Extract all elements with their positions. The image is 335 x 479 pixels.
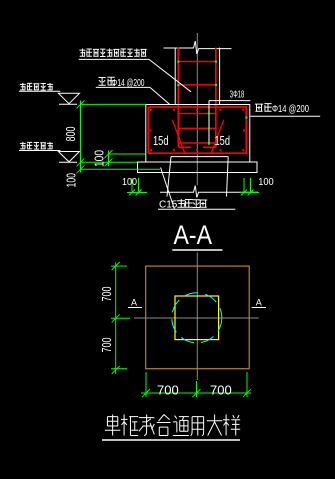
cushion slab (C15) <box>138 162 258 173</box>
note: bottom bars 底筋 <box>255 104 263 111</box>
stirrup end grips (green dots) <box>177 61 179 63</box>
plan vertical centerline <box>196 253 198 381</box>
title underline <box>102 439 240 441</box>
svg-text:700: 700 <box>210 383 232 398</box>
ground break line at pile bottom (with zigzag) <box>160 186 258 198</box>
rebar cage of cap (red) <box>148 107 246 153</box>
rebar section dots side columns <box>150 130 246 132</box>
C15 leader 1 <box>161 168 175 210</box>
pile cap outline (plan, orange) <box>146 266 250 369</box>
small dim (pile embed) <box>105 150 146 166</box>
cap outline <box>146 105 250 163</box>
svg-text:Φ14 @200: Φ14 @200 <box>272 104 309 115</box>
column outline (plan, yellow) <box>175 296 219 340</box>
pile anchor bar right (red diagonal) <box>211 120 224 154</box>
svg-text:A: A <box>256 298 262 308</box>
svg-text:700: 700 <box>99 287 114 302</box>
svg-text:A: A <box>131 298 137 308</box>
pile anchor bar left (red diagonal) <box>172 120 185 154</box>
column right edge <box>219 48 221 105</box>
svg-text:100: 100 <box>122 177 137 188</box>
plan horizontal centerline <box>134 317 259 319</box>
svg-text:800: 800 <box>63 127 78 142</box>
plan left dim (green) <box>111 262 130 374</box>
column centerline <box>196 33 198 185</box>
bottom elevation mark 承台底标高 <box>20 142 26 149</box>
stirrups inside cap <box>178 113 216 115</box>
ext line cushion bottom level <box>81 168 161 170</box>
note: column insert bars text <box>79 48 85 56</box>
rebar section dots top row <box>150 109 244 111</box>
stirrup above cap 1 <box>178 61 216 63</box>
pile top line <box>171 156 228 158</box>
main dim line <box>80 101 82 173</box>
column dowel bar left (red) <box>177 48 179 148</box>
right overhang dim 100 <box>240 178 260 196</box>
column left edge <box>174 48 176 105</box>
svg-text:15d: 15d <box>153 133 169 148</box>
stirrup above cap 2 <box>178 84 216 86</box>
tick marks <box>77 100 85 108</box>
pile outline (plan, cyan dashed circle) <box>172 293 222 343</box>
svg-text:3Φ18: 3Φ18 <box>230 89 245 100</box>
top elevation mark 承台顶标高 <box>20 83 26 90</box>
svg-text:100: 100 <box>92 150 107 167</box>
svg-text:A-A: A-A <box>174 220 213 250</box>
column dowel bar right (red) <box>215 48 217 148</box>
svg-text:100: 100 <box>64 173 79 188</box>
left overhang dim 100 <box>127 178 147 196</box>
note: top bars 面筋 <box>99 78 106 86</box>
column cut line with break zigzag <box>164 41 232 54</box>
svg-text:15d: 15d <box>215 133 231 148</box>
plan bottom dim (green) <box>141 372 251 397</box>
svg-text:700: 700 <box>99 338 114 353</box>
svg-text:100: 100 <box>258 177 274 188</box>
rebar section dots bottom row <box>150 149 244 151</box>
pile right edge <box>227 157 229 197</box>
ext line cap top level <box>81 103 146 105</box>
svg-text:700: 700 <box>157 383 179 398</box>
ext line cap bottom level <box>81 161 138 163</box>
pile left edge <box>167 157 171 197</box>
